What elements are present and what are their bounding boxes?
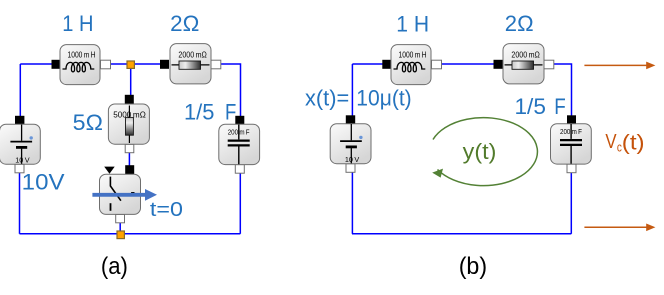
wire: resistor R2 bottom to switch S1 top	[128, 150, 130, 168]
node: bottom junction on bottom wire	[117, 231, 124, 239]
arrow: switch actuation (blue)	[92, 193, 146, 197]
svg-text:1000 m H: 1000 m H	[399, 50, 427, 59]
svg-text:10 V: 10 V	[345, 155, 360, 164]
mesh arrowhead	[432, 169, 443, 178]
svg-text:t=0: t=0	[150, 199, 183, 221]
battery V2 (10V)	[330, 115, 371, 172]
battery V1 (10V)	[0, 116, 40, 173]
svg-text:2Ω: 2Ω	[505, 11, 534, 36]
svg-text:1/5: 1/5	[184, 100, 214, 125]
resistor R1 (2000 mOhm)	[160, 44, 221, 84]
svg-text:(b): (b)	[459, 253, 487, 280]
wire: capacitor C1 bottom to bottom-right corner	[239, 168, 241, 234]
svg-text:5Ω: 5Ω	[73, 110, 103, 135]
inductor L1 (1000 mH)	[52, 45, 111, 85]
mesh current loop y(t) (green arc)	[433, 118, 537, 186]
svg-text:2000 mΩ: 2000 mΩ	[511, 51, 539, 60]
capacitor C1 (200 mF)	[219, 116, 260, 173]
wire: left vertical down to battery V1 top terminal	[19, 64, 21, 120]
node: top junction between L1 and R1	[127, 61, 134, 68]
svg-text:1 H: 1 H	[396, 11, 429, 36]
wire: top node to resistor R1	[131, 63, 165, 65]
capacitor C2 (200 mF)	[551, 115, 592, 172]
svg-text:10μ(t): 10μ(t)	[356, 85, 411, 110]
svg-text:F: F	[554, 94, 566, 119]
wire: capacitor C2 bottom to bottom-right corner	[570, 168, 572, 234]
wire: top-left corner to inductor L1	[20, 63, 56, 65]
wire: bottom horizontal of circuit (a)	[20, 233, 241, 235]
svg-text:y(t): y(t)	[463, 139, 497, 164]
wire: left vertical down to battery V2 top terminal	[351, 64, 353, 119]
resistor R2 (5000 mOhm) vertical	[108, 95, 149, 153]
svg-text:1 H: 1 H	[62, 11, 93, 36]
svg-text:10V: 10V	[22, 170, 65, 195]
svg-text:1000 m H: 1000 m H	[68, 50, 96, 59]
wire: top-left corner to inductor L2	[352, 63, 387, 65]
svg-text:(a): (a)	[101, 253, 128, 280]
svg-text:1/5: 1/5	[515, 94, 546, 119]
wire: switch S1 bottom to bottom node	[119, 221, 121, 234]
wire: inductor L2 to resistor R3	[437, 63, 498, 65]
wire: bottom horizontal of circuit (b)	[352, 233, 571, 235]
wire: inductor L1 to top node	[106, 63, 131, 65]
switch S1	[100, 165, 141, 223]
inductor L2 (1000 mH)	[382, 45, 441, 85]
svg-text:(t): (t)	[622, 130, 645, 154]
arrow: output bottom (orange)	[584, 226, 647, 228]
wire: top node down to resistor R2	[130, 66, 132, 98]
wire: resistor R1 to top-right corner, down to capacitor C1	[216, 64, 241, 120]
svg-text:2000 mΩ: 2000 mΩ	[178, 51, 206, 60]
wire: battery V2 bottom to bottom wire	[351, 168, 353, 234]
wire: battery V1 bottom to bottom wire	[19, 168, 21, 234]
svg-text:V: V	[605, 131, 617, 153]
svg-text:2Ω: 2Ω	[170, 11, 199, 36]
svg-text:F: F	[225, 100, 236, 125]
resistor R3 (2000 mOhm)	[494, 44, 554, 84]
wire: resistor R3 to top-right corner, down to capacitor C2	[549, 64, 572, 119]
svg-text:10 V: 10 V	[15, 156, 30, 165]
svg-text:x(t)=: x(t)=	[305, 85, 349, 110]
arrow: output top (orange)	[584, 64, 647, 66]
